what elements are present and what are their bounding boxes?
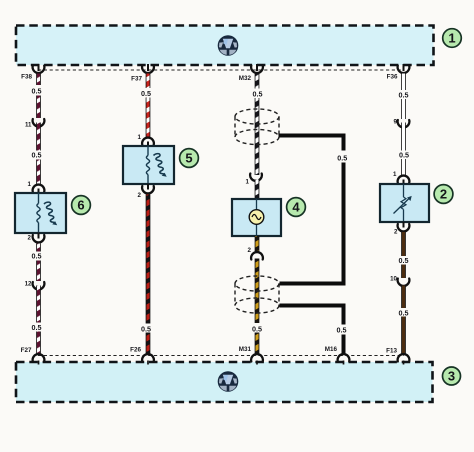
sensor component 6 (box)	[15, 193, 66, 233]
svg-text:1: 1	[28, 181, 32, 188]
svg-text:F26: F26	[130, 347, 141, 354]
svg-text:0.5: 0.5	[141, 325, 151, 334]
svg-text:M16: M16	[325, 346, 338, 353]
inline connector pin 11	[25, 119, 44, 129]
svg-text:0.5: 0.5	[337, 154, 347, 163]
label 4	[287, 198, 306, 217]
wire F27 segment a (maroon/white)	[32, 244, 42, 282]
svg-text:1: 1	[246, 179, 250, 186]
svg-text:1: 1	[393, 171, 397, 178]
terminal M31	[239, 346, 263, 365]
svg-text:F38: F38	[21, 74, 32, 81]
svg-text:0.5: 0.5	[399, 256, 409, 265]
bottom connector rail	[38, 355, 404, 357]
wire F13 segment b (brown)	[399, 286, 409, 355]
svg-text:M32: M32	[239, 75, 252, 82]
terminal F26	[130, 347, 154, 365]
svg-text:1: 1	[448, 31, 455, 46]
cable shield (bottom)	[235, 276, 279, 313]
shield drain wire (bottom shield to M16)	[280, 306, 347, 355]
wire M31 segment (yellow/black)	[252, 259, 262, 355]
wire F38 segment a (maroon/white)	[32, 74, 42, 119]
wire F27 segment b (maroon/white)	[32, 286, 42, 355]
component 5 pin 1 connector	[138, 134, 154, 147]
terminal M16	[325, 346, 350, 365]
label 6	[72, 196, 91, 215]
svg-text:10: 10	[390, 276, 397, 283]
svg-text:2: 2	[138, 192, 142, 199]
ECU icon bottom	[218, 371, 239, 392]
svg-text:2: 2	[440, 187, 447, 202]
svg-text:0.5: 0.5	[253, 90, 263, 99]
label 5	[180, 149, 199, 168]
svg-text:0.5: 0.5	[337, 326, 347, 335]
potentiometer sensor component 2 (box)	[380, 184, 429, 222]
terminal M32	[239, 64, 263, 82]
wire F36 segment b (white)	[399, 123, 409, 176]
inline connector pin 12	[25, 281, 45, 290]
top connector rail	[38, 69, 404, 71]
svg-text:11: 11	[25, 122, 32, 129]
component 2 pin 1 connector	[393, 171, 409, 185]
svg-text:0.5: 0.5	[399, 309, 409, 318]
label 3	[443, 367, 461, 385]
wire F13 segment a (brown)	[399, 232, 409, 278]
svg-text:0.5: 0.5	[399, 151, 409, 160]
component 4 pin 2 connector	[248, 236, 263, 260]
svg-text:F36: F36	[387, 74, 398, 81]
svg-text:12: 12	[25, 281, 32, 288]
inline connector pin 9	[394, 119, 410, 128]
ECU icon top	[218, 35, 239, 56]
svg-text:0.5: 0.5	[32, 323, 42, 332]
wire F36 segment a (white)	[399, 74, 409, 120]
wire F37 segment (red/white)	[141, 74, 151, 138]
terminal F36	[387, 64, 410, 81]
label 1	[443, 29, 462, 48]
svg-text:2: 2	[394, 229, 398, 236]
svg-text:5: 5	[185, 151, 192, 166]
component 6 pin 2 connector	[28, 233, 45, 243]
terminal F37	[131, 64, 154, 83]
wire F38 segment b (maroon/white)	[32, 123, 42, 185]
control unit bus bar 1 (top)	[16, 26, 434, 66]
svg-text:0.5: 0.5	[252, 325, 262, 334]
component 4 pin 1 connector	[246, 174, 262, 186]
svg-text:4: 4	[292, 200, 300, 215]
svg-text:0.5: 0.5	[32, 252, 42, 261]
svg-text:0.5: 0.5	[141, 89, 151, 98]
wire M32 segment a (black/white)	[253, 74, 263, 176]
cable shield (top)	[235, 109, 279, 145]
shield drain wire (top shield to bottom shield)	[279, 136, 348, 284]
svg-text:6: 6	[77, 198, 84, 213]
terminal F13	[386, 348, 409, 365]
component 5 pin 2 connector	[138, 184, 154, 200]
svg-text:3: 3	[448, 369, 455, 384]
svg-text:F37: F37	[131, 76, 142, 83]
svg-text:0.5: 0.5	[32, 151, 42, 160]
terminal F38	[21, 64, 44, 81]
svg-text:M31: M31	[239, 346, 252, 353]
component 6 pin 1 connector	[28, 181, 45, 194]
svg-text:0.5: 0.5	[32, 87, 42, 96]
svg-text:2: 2	[28, 235, 32, 242]
wire component 4 pigtail (black/white)	[255, 180, 260, 200]
svg-text:9: 9	[394, 119, 398, 126]
svg-text:F13: F13	[386, 348, 397, 355]
sensor component 5 (box)	[123, 146, 174, 184]
component 2 pin 2 connector	[394, 222, 409, 236]
label 2	[434, 185, 453, 204]
svg-text:0.5: 0.5	[399, 91, 409, 100]
svg-text:F27: F27	[21, 347, 32, 354]
svg-text:1: 1	[138, 134, 142, 141]
wire F26 segment (red/black)	[141, 195, 151, 355]
control unit bus bar 3 (bottom)	[16, 362, 433, 402]
svg-text:2: 2	[248, 247, 252, 254]
inductive sensor component 4 (box)	[232, 199, 281, 236]
inline connector pin 10	[390, 276, 409, 286]
terminal F27	[21, 347, 45, 365]
